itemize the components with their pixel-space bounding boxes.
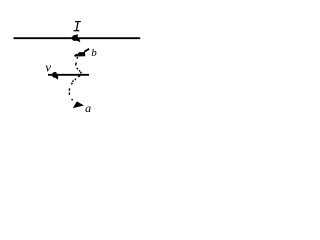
trajectory dash 8 xyxy=(75,79,76,80)
trajectory branch b dashes xyxy=(75,54,82,73)
trajectory dash 3 xyxy=(77,68,78,69)
svg-text:a: a xyxy=(85,101,91,115)
svg-text:b: b xyxy=(91,47,97,59)
arrowhead a xyxy=(74,102,83,108)
arrowhead b xyxy=(76,52,86,57)
trajectory dash 11 xyxy=(68,88,70,90)
trajectory dash 1 xyxy=(80,72,83,74)
trajectory branch a dashes xyxy=(69,76,80,101)
trajectory dash 12 xyxy=(68,92,70,95)
velocity v arrowhead xyxy=(51,72,58,80)
trajectory dash 6 xyxy=(75,54,77,56)
trajectory dash 9 xyxy=(72,81,73,82)
velocity v line xyxy=(48,74,89,76)
trajectory dash 2 xyxy=(78,70,81,71)
trajectory dash 7 xyxy=(78,76,80,77)
trajectory dash 10 xyxy=(71,83,72,85)
trajectory dash 4 xyxy=(75,63,78,66)
current I arrowhead xyxy=(71,34,80,42)
trajectory dash 13 xyxy=(72,99,73,100)
trajectory dash 5 xyxy=(76,57,79,59)
label I (drawn as strokes, CM-italic style) xyxy=(74,22,81,31)
arrowhead b spike xyxy=(84,49,89,52)
svg-text:v: v xyxy=(45,60,51,75)
wire carrying current I xyxy=(14,37,141,39)
